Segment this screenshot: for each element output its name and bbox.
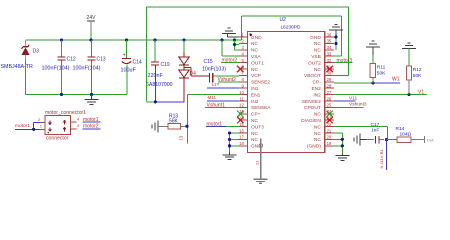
wire motor3 pin32 (334, 62, 353, 64)
junction C17 node (385, 138, 388, 141)
ground below right pins (341, 154, 343, 156)
svg-text:25: 25 (327, 103, 332, 108)
wire motor1 left (15, 128, 40, 130)
svg-text:100uF: 100uF (121, 68, 137, 74)
connector pin1 stub (40, 128, 45, 130)
svg-text:V1: V1 (418, 89, 424, 95)
junction R12 (407, 93, 410, 96)
svg-text:20: 20 (327, 135, 332, 140)
wire gnd bus vertical (229, 133, 231, 153)
svg-text:21: 21 (327, 128, 332, 133)
wire VBOOST top (146, 6, 348, 8)
IC U2 body (248, 32, 325, 153)
junction rail D4 (182, 38, 185, 41)
svg-text:motor2: motor2 (222, 58, 238, 64)
wire SENSEA pin12 (205, 106, 239, 108)
svg-text:12: 12 (239, 103, 244, 108)
svg-text:C13: C13 (97, 57, 106, 63)
wire pin21 bend (334, 132, 342, 134)
wire pin20 stub (334, 138, 342, 140)
svg-text:N-111V-R1: N-111V-R1 (379, 149, 384, 169)
svg-text:motor1: motor1 (83, 117, 99, 123)
svg-text:35: 35 (327, 39, 332, 44)
wire motor2 pin5 (221, 62, 239, 64)
svg-text:4: 4 (77, 117, 79, 121)
no-connect pin23 (327, 117, 333, 123)
wire to C17 (366, 139, 373, 141)
svg-text:V11: V11 (349, 96, 358, 102)
svg-text:VSA: VSA (251, 54, 261, 60)
svg-text:VBOOT: VBOOT (304, 73, 321, 79)
wire sense drop (385, 140, 387, 170)
svg-text:33: 33 (327, 52, 332, 57)
svg-text:NC: NC (314, 137, 321, 143)
connector pin2 stub (40, 121, 45, 123)
svg-text:104Ω: 104Ω (400, 131, 412, 137)
resistor R14 (397, 137, 411, 143)
no-connect pin31 (327, 66, 333, 72)
connector internal pin marks (49, 121, 52, 125)
diode D4 pair (183, 40, 185, 52)
svg-text:21: 21 (255, 160, 260, 165)
junction pin16 (228, 131, 231, 134)
wire VSB top line (242, 15, 342, 17)
svg-text:NC: NC (314, 124, 321, 130)
wire VBOOST bottom (146, 101, 155, 103)
resistor R11 (370, 64, 375, 78)
svg-text:L1T: L1T (212, 82, 220, 87)
svg-text:36: 36 (327, 32, 332, 37)
svg-text:27: 27 (327, 90, 332, 95)
wire motor1 pin15 (206, 126, 226, 128)
junction R13 EN1 (185, 125, 188, 128)
svg-text:U2: U2 (280, 17, 287, 23)
wire pin16 gnd (230, 132, 240, 134)
capacitor C17 (374, 136, 376, 144)
svg-text:VCP: VCP (251, 73, 261, 79)
svg-text:C15: C15 (204, 59, 213, 65)
ground symbol below rail (91, 95, 93, 100)
svg-text:10nF(103): 10nF(103) (202, 67, 226, 73)
wire rail to pins2-3 (234, 40, 236, 50)
junction R11 (371, 81, 374, 84)
svg-text:C19: C19 (161, 62, 170, 68)
svg-text:2: 2 (38, 118, 40, 122)
svg-text:11: 11 (239, 96, 244, 101)
no-connect pin24 (327, 111, 333, 117)
junction ground rail C13 (90, 93, 93, 96)
wire rail to pin4 VSA (221, 40, 223, 56)
svg-text:24V: 24V (87, 15, 97, 21)
svg-text:SENSE2: SENSE2 (302, 99, 321, 105)
wire pin19 stub (334, 145, 342, 147)
svg-text:NC: NC (251, 118, 258, 124)
svg-text:motor3: motor3 (337, 58, 353, 64)
resistor R12 (406, 66, 411, 80)
wire 24V rail (26, 39, 242, 41)
svg-text:32: 32 (327, 58, 332, 63)
wire IN2 pin27 to V1 (334, 94, 427, 96)
svg-text:100nF(104): 100nF(104) (73, 66, 101, 72)
svg-text:17: 17 (239, 135, 244, 140)
svg-text:3: 3 (77, 124, 79, 128)
svg-text:C12: C12 (67, 57, 76, 63)
junction rail 24V/C13 (89, 38, 92, 41)
wire EN1 pin10 (188, 94, 239, 96)
svg-text:motor1: motor1 (207, 121, 223, 127)
svg-text:GND: GND (310, 35, 321, 41)
svg-text:VSB: VSB (311, 54, 321, 60)
ground above R12 (402, 47, 416, 49)
svg-text:R14: R14 (396, 126, 405, 132)
no-connect pin13 (237, 111, 243, 117)
wire ground rail (26, 94, 127, 96)
svg-text:19: 19 (327, 141, 332, 146)
port 1VA (424, 136, 426, 143)
svg-text:6A8107000: 6A8107000 (146, 82, 173, 88)
svg-text:1: 1 (40, 125, 42, 129)
svg-text:26: 26 (327, 96, 332, 101)
wire Vshunt2 pin8 (218, 81, 239, 83)
junction rail C12 (60, 38, 63, 41)
wire EN1 lower stub (187, 126, 189, 143)
junction rail C19 (153, 38, 156, 41)
capacitor C14 polarized (126, 40, 128, 58)
wire motor2 right (83, 128, 101, 130)
wire VBOOST left vertical (145, 7, 147, 102)
junction rail branch A (220, 38, 223, 41)
svg-text:motor1: motor1 (15, 123, 30, 129)
svg-text:10: 10 (239, 90, 244, 95)
svg-text:OUT1: OUT1 (251, 60, 264, 66)
junction pin19 (341, 144, 344, 147)
wire CPOUT pin25 (334, 106, 364, 108)
svg-text:(GND): (GND) (307, 144, 321, 150)
wire SENSE2 pin26 (334, 100, 356, 102)
svg-text:OUT3: OUT3 (251, 124, 264, 130)
wire pin2 elbow (34, 121, 41, 123)
svg-text:220nF: 220nF (148, 73, 164, 79)
junction VBOOST at C19 (154, 100, 157, 103)
svg-text:R11: R11 (377, 65, 386, 71)
wire D3 to ground rail (25, 60, 27, 95)
svg-text:100nF(104): 100nF(104) (42, 66, 70, 72)
ground above IC left (222, 33, 236, 35)
svg-text:NC: NC (251, 137, 258, 143)
svg-text:18: 18 (239, 141, 244, 146)
svg-text:L6230PD: L6230PD (281, 25, 302, 31)
diode D3 TVS (25, 40, 27, 47)
junction motor1 (32, 128, 35, 131)
connector pin3 stub (71, 128, 77, 130)
junction pin18 (228, 144, 231, 147)
wire right gnd bus (341, 139, 343, 153)
capacitor C19 (154, 40, 156, 62)
svg-text:C17: C17 (371, 122, 380, 128)
svg-text:OUT2: OUT2 (308, 60, 321, 66)
capacitor C15 (208, 73, 210, 82)
IC U2 pins and pin names (239, 36, 248, 38)
svg-text:IN2: IN2 (251, 99, 259, 105)
svg-text:1nF: 1nF (371, 128, 379, 134)
svg-text:SMBJ48A-TR: SMBJ48A-TR (1, 64, 34, 70)
svg-text:Vshunt3: Vshunt3 (349, 102, 367, 108)
wire pin17 gnd (230, 138, 240, 140)
junction pin17 (228, 138, 231, 141)
svg-text:CP+: CP+ (251, 112, 261, 118)
svg-text:connector: connector (46, 135, 69, 141)
ground left of C17 (359, 134, 361, 146)
ground left of R13 (157, 120, 159, 132)
svg-text:+: + (123, 53, 126, 59)
svg-text:NC: NC (314, 112, 321, 118)
wire motor1 right (83, 121, 101, 123)
svg-text:CP-: CP- (313, 80, 322, 86)
wire pin18 gnd (230, 145, 240, 147)
svg-text:NC: NC (251, 41, 258, 47)
ground above right pins (329, 29, 343, 31)
ground below pins16-18 (229, 153, 231, 155)
svg-text:50K: 50K (377, 71, 386, 77)
junction rail branch B (233, 38, 236, 41)
svg-text:16: 16 (239, 128, 244, 133)
svg-text:29: 29 (327, 77, 332, 82)
svg-text:IN1: IN1 (251, 86, 259, 92)
svg-text:D3: D3 (33, 49, 40, 55)
svg-text:SENSEA: SENSEA (251, 105, 271, 111)
wire IN2 pin11 (207, 100, 239, 102)
junction pin35 (334, 42, 337, 45)
svg-text:CPOUT: CPOUT (304, 105, 321, 111)
wire C17 node to R14 (387, 139, 397, 141)
chassis ground below IC (254, 178, 268, 180)
svg-text:NC: NC (251, 48, 258, 54)
svg-text:SENSE2: SENSE2 (251, 80, 270, 86)
svg-text:motor2: motor2 (83, 124, 99, 130)
svg-text:M11: M11 (208, 95, 217, 100)
svg-text:IN2: IN2 (313, 92, 321, 98)
svg-text:EN1: EN1 (251, 92, 261, 98)
svg-text:NC: NC (314, 41, 321, 47)
junction rail C14 (125, 38, 128, 41)
junction pin36 (334, 35, 337, 38)
wire pin22 to C17 node (334, 126, 387, 128)
capacitor C12 (61, 40, 63, 56)
wire W1 stub (373, 82, 400, 84)
svg-text:Vshunt1: Vshunt1 (207, 103, 226, 109)
junction ground rail C12 (60, 93, 63, 96)
no-connect pin14 (237, 117, 243, 123)
connector CON1 body (45, 116, 71, 135)
svg-text:34: 34 (327, 45, 332, 50)
svg-text:R12: R12 (413, 67, 422, 73)
wire D4 tap to C15 (184, 67, 191, 69)
wire VBOOST right vertical (347, 7, 349, 75)
wire pin36 gnd (334, 36, 336, 38)
wire IN1 pin9 (207, 87, 239, 89)
svg-text:Vshunt2: Vshunt2 (218, 77, 237, 83)
svg-text:motor_connector1: motor_connector1 (45, 110, 86, 116)
wire VBOOT pin30 (334, 74, 348, 76)
svg-text:EN2: EN2 (311, 86, 321, 92)
wire 24V riser (241, 16, 243, 40)
svg-text:C14: C14 (133, 60, 142, 66)
svg-text:NC: NC (251, 131, 258, 137)
svg-text:NC: NC (314, 48, 321, 54)
svg-text:NC: NC (314, 67, 321, 73)
svg-text:1VA: 1VA (427, 138, 435, 143)
wire VSB drop to pin33 (341, 16, 343, 56)
junction pin20 (341, 138, 344, 141)
svg-text:NC: NC (314, 131, 321, 137)
svg-text:NC: NC (251, 67, 258, 73)
svg-text:56K: 56K (169, 118, 179, 124)
no-connect pin6 (237, 66, 243, 72)
svg-text:W1: W1 (392, 77, 400, 83)
svg-text:13: 13 (179, 135, 184, 140)
capacitor C13 (91, 40, 93, 56)
svg-text:50K: 50K (413, 73, 422, 79)
ground above R11 (366, 46, 380, 48)
IC thermal pad lead (260, 139, 262, 180)
wire CP- pin29 to R11 (334, 82, 373, 84)
svg-text:28: 28 (327, 84, 332, 89)
resistor R13 (168, 124, 180, 129)
connector pin4 stub (71, 121, 77, 123)
svg-text:GND: GND (251, 35, 262, 41)
svg-text:DIAG/EN: DIAG/EN (301, 118, 321, 124)
